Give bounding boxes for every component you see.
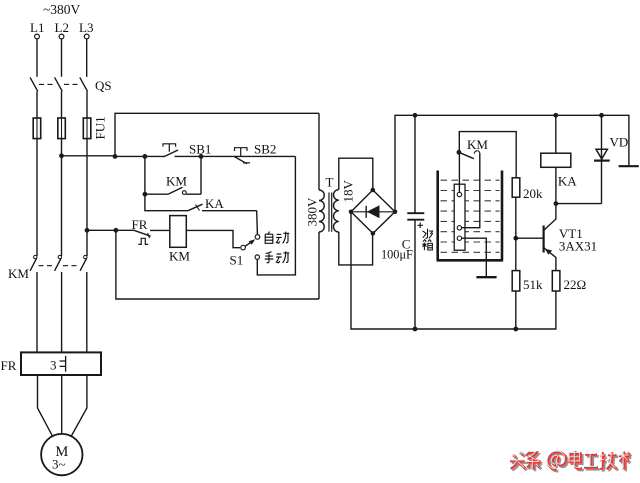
node L2 control tap <box>59 153 64 158</box>
water level dashes <box>441 180 500 252</box>
wire FR to motor left <box>38 375 53 437</box>
wire L2 drop to QS <box>61 39 63 77</box>
electrode terminal lower <box>457 236 461 240</box>
label water tank (shui xiang) <box>422 229 433 251</box>
electrode holder <box>454 184 465 250</box>
wire L3 QS to fuse <box>86 91 88 118</box>
relay coil KA <box>541 115 577 203</box>
node 51k bottom <box>513 327 518 332</box>
node cap bottom <box>413 327 418 332</box>
control box bottom wire <box>116 230 319 299</box>
thermal relay FR heater box <box>1 352 102 375</box>
wire auto drop / manual loop <box>257 156 295 275</box>
wire FR to motor right <box>71 375 87 437</box>
node L3 control tap <box>85 228 90 233</box>
wire L2 tap to control box <box>62 155 116 157</box>
wire L3 fuse to KM contact <box>86 139 88 256</box>
terminal L1 <box>30 20 44 39</box>
ground <box>476 276 496 278</box>
supply label ~380V <box>43 2 81 17</box>
wire 20k to base node <box>515 197 517 238</box>
node base <box>513 236 518 241</box>
wire L2 fuse to KM contact <box>61 139 63 256</box>
selector switch S1 <box>230 235 260 268</box>
contact KM electrode <box>457 137 489 159</box>
wire L1 KM to FR box <box>36 272 38 352</box>
contactor KM main contacts <box>8 255 87 281</box>
wire KA to auto contact <box>256 211 259 235</box>
wire DC negative rail <box>351 212 556 329</box>
switch QS <box>30 77 112 93</box>
pushbutton SB2 <box>234 142 276 164</box>
node KM-branch top <box>143 154 148 159</box>
transistor VT1 3AX31 <box>516 204 597 271</box>
contact FR normally-closed <box>116 217 151 244</box>
wire base node to 51k <box>515 238 517 270</box>
wire L2 QS to fuse <box>61 91 63 118</box>
resistor 20k <box>512 178 543 201</box>
wire DC positive rail <box>395 115 629 212</box>
bridge rectifier <box>349 188 398 236</box>
fuse FU1 pole3 <box>83 118 91 139</box>
electrode terminal middle <box>457 226 461 230</box>
wire L1 drop to QS <box>36 39 38 77</box>
node collector <box>554 201 559 206</box>
fuse FU1 pole2 <box>58 118 66 139</box>
wire secondary top to bridge <box>339 158 373 190</box>
capacitor C 100uF <box>381 115 424 329</box>
wire L2 KM to FR box <box>61 272 63 352</box>
terminal L3 <box>79 20 93 39</box>
resistor 22 ohm <box>552 271 586 292</box>
wire middle electrode <box>462 153 480 227</box>
control box top wire <box>115 113 319 156</box>
fuse FU1 pole1 <box>33 118 41 139</box>
wire L1 fuse to KM contact <box>36 139 38 256</box>
wire collector to VD branch <box>556 203 602 205</box>
contact KM auxiliary <box>143 156 202 196</box>
pushbutton SB1 <box>163 142 211 157</box>
diode VD <box>594 115 628 203</box>
label auto (zi dong) <box>265 232 289 244</box>
wire KM to upper electrode <box>458 155 460 193</box>
node SB1 out <box>199 154 204 159</box>
wire L1 QS to fuse <box>36 91 38 118</box>
wire electrode upper feed <box>459 132 516 178</box>
wire KM coil to S1 <box>186 230 240 247</box>
node VD top <box>599 113 604 118</box>
resistor 51k <box>512 271 543 292</box>
coil KM <box>150 216 190 264</box>
label manual (shou dong) <box>265 251 290 263</box>
contact KA <box>145 194 257 211</box>
electrode terminal upper <box>457 192 461 196</box>
node control left top <box>113 154 118 159</box>
terminal L2 <box>55 20 69 39</box>
node cap top <box>413 113 418 118</box>
motor M 3~ <box>41 434 82 475</box>
wire L3 drop to QS <box>86 39 88 77</box>
label FU1 <box>93 116 108 139</box>
wire lower electrode to earth branch <box>462 238 487 277</box>
water tank walls <box>437 171 504 261</box>
wire L3 tap to FR contact <box>87 229 116 231</box>
wire 51k to rail <box>515 291 517 329</box>
wire L3 KM to FR box <box>86 272 88 352</box>
wire control main rung <box>115 155 295 157</box>
transformer T <box>305 113 356 299</box>
node KA top <box>553 113 558 118</box>
terminal bar top right <box>619 165 639 167</box>
wire FR to motor mid <box>61 375 63 434</box>
wire secondary bottom to bridge <box>339 232 373 265</box>
node control left lower <box>114 228 119 233</box>
